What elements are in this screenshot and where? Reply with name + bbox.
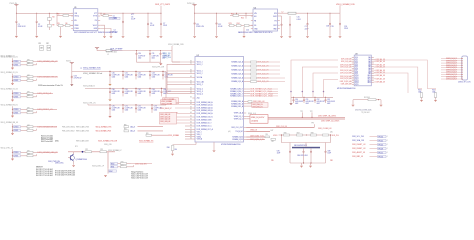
junction <box>216 13 217 14</box>
wire <box>185 133 192 135</box>
wire <box>257 73 281 75</box>
wire <box>57 15 63 17</box>
svg-text:VDDQ 1.35V VDD2 1.10V: VDDQ 1.35V VDD2 1.10V <box>131 178 149 180</box>
capacitor C18 <box>329 22 331 25</box>
svg-text:C90: C90 <box>295 99 298 101</box>
capacitor C11 <box>194 22 196 25</box>
wire <box>13 60 14 62</box>
svg-text:DM0_LN: DM0_LN <box>250 130 257 132</box>
ground <box>72 165 75 167</box>
connector wire <box>441 67 462 69</box>
junction <box>148 13 149 14</box>
series resistor <box>27 112 33 114</box>
wire <box>109 72 111 74</box>
ground <box>290 103 293 105</box>
capacitor C15 <box>281 23 283 26</box>
wire <box>138 126 164 128</box>
wire <box>241 25 244 27</box>
wire <box>122 89 124 91</box>
wire <box>48 20 50 24</box>
connector wire <box>441 69 462 71</box>
junction <box>12 155 13 156</box>
ground <box>215 36 218 38</box>
wire <box>135 72 137 74</box>
svg-text:DQ12: DQ12 <box>355 79 359 81</box>
junction <box>194 13 195 14</box>
capacitor C5 <box>122 20 124 23</box>
wire <box>112 50 118 52</box>
svg-text:DDR3_TP_CON: DDR3_TP_CON <box>458 82 471 84</box>
U3 left pin <box>352 67 354 69</box>
U4 left pin <box>251 24 253 26</box>
U2 right pin SDRAM_DM0_A <box>244 101 247 103</box>
U3 right pin <box>371 76 374 78</box>
svg-text:0.1UF 6.3V: 0.1UF 6.3V <box>152 55 160 57</box>
U3 right pin <box>371 69 374 71</box>
U3 left pin <box>352 82 354 84</box>
svg-text:VDD1_SDRAM: VDD1_SDRAM <box>168 134 179 137</box>
capacitor C70 <box>109 107 111 110</box>
wire <box>374 60 436 91</box>
svg-text:WROCLAW_DDR: WROCLAW_DDR <box>76 139 90 142</box>
U2 right pin SDRAM_DQ1_A <box>244 65 247 67</box>
svg-text:R44 22 ohm 0402: R44 22 ohm 0402 <box>41 135 53 137</box>
U3 right pin <box>371 74 374 76</box>
wire <box>293 97 295 98</box>
U3 right pin <box>371 73 374 75</box>
wire <box>162 72 164 74</box>
svg-text:VDDQ_DISC_LP: VDDQ_DISC_LP <box>92 166 105 168</box>
svg-text:VDDQ_SDRAM_OD_LN: VDDQ_SDRAM_OD_LN <box>1 88 19 91</box>
wire <box>135 110 137 113</box>
transistor Q2 <box>70 154 74 161</box>
wire <box>48 27 50 30</box>
svg-text:DDR_A1_LN: DDR_A1_LN <box>376 60 386 63</box>
wire <box>310 163 312 165</box>
wire <box>349 70 352 72</box>
svg-text:BST: BST <box>274 25 277 27</box>
wire <box>13 151 14 153</box>
U2 left pin VSSQ <box>192 136 195 138</box>
svg-text:C80: C80 <box>265 134 268 136</box>
U1 left pin <box>71 28 73 30</box>
net label <box>14 151 21 153</box>
wire <box>122 110 124 113</box>
wire <box>48 13 50 17</box>
junction <box>378 99 379 100</box>
svg-text:DDR_A7_LN: DDR_A7_LN <box>376 77 386 80</box>
wire <box>160 13 162 22</box>
resistor R5 <box>58 25 63 27</box>
wire <box>167 93 192 95</box>
wire <box>167 72 192 74</box>
wire <box>12 74 14 83</box>
wire <box>370 140 378 142</box>
wire <box>185 125 192 127</box>
wire termination link <box>291 60 338 97</box>
svg-text:0402: 0402 <box>125 110 128 112</box>
svg-text:WROCLAW_LP4X: WROCLAW_LP4X <box>76 125 90 128</box>
svg-text:0402: 0402 <box>317 103 320 105</box>
ground <box>352 105 355 107</box>
wire <box>301 163 303 165</box>
capacitor C2 <box>36 20 38 23</box>
junction <box>290 91 292 93</box>
U1 right pin <box>98 24 100 26</box>
connector pin <box>461 76 463 77</box>
wire <box>175 107 192 109</box>
wire <box>311 112 313 117</box>
svg-text:DDR_SDRAM_CK_T: DDR_SDRAM_CK_T <box>197 122 212 125</box>
resistor RT4 <box>251 77 257 79</box>
ground <box>306 36 309 38</box>
svg-text:C19: C19 <box>331 26 334 28</box>
wire <box>246 81 250 83</box>
U2 left pin VDDCA <box>192 77 195 79</box>
wire <box>257 69 281 71</box>
junction <box>149 88 150 89</box>
connector pin <box>461 69 463 70</box>
ground <box>103 36 106 38</box>
wire <box>246 116 250 118</box>
junction <box>302 117 303 118</box>
svg-text:VDDQ_PPL_1V8: VDDQ_PPL_1V8 <box>152 67 164 69</box>
junction <box>12 64 13 65</box>
U2 right pin SDRAM_DQ5_A <box>244 81 247 83</box>
svg-text:VDD2_SELF_LP: VDD2_SELF_LP <box>160 108 173 110</box>
wire <box>149 55 151 62</box>
wire <box>131 163 152 165</box>
wire <box>68 151 115 153</box>
wire <box>194 25 196 36</box>
svg-text:0402: 0402 <box>138 77 141 79</box>
net label <box>378 135 387 137</box>
ground <box>122 36 125 38</box>
U2 left pin DDR_SDRAM_CS0_N <box>192 116 195 118</box>
connector pin <box>461 74 463 75</box>
wire <box>176 101 192 103</box>
svg-text:0.01UF 6.3V: 0.01UF 6.3V <box>317 101 326 103</box>
wire <box>325 102 327 103</box>
capacitor C6 <box>147 22 149 25</box>
svg-text:DDR_SDRAM_CA4_A: DDR_SDRAM_CA4_A <box>197 112 214 115</box>
wire <box>374 69 376 71</box>
wire <box>37 92 53 94</box>
svg-text:C30: C30 <box>138 53 141 55</box>
U3 left pin <box>352 62 354 64</box>
svg-text:TP148: TP148 <box>378 148 383 150</box>
svg-text:0.1UF 6.3V: 0.1UF 6.3V <box>152 74 161 76</box>
wire cap bank bus 3 <box>88 104 166 106</box>
svg-text:DDR_SDRAM_CA1_A: DDR_SDRAM_CA1_A <box>197 103 214 106</box>
wire <box>36 79 38 81</box>
U3 right pin <box>371 62 374 64</box>
U4 right pin <box>278 12 280 14</box>
wire <box>177 116 193 118</box>
wire <box>33 79 37 81</box>
wire <box>172 61 192 63</box>
wire <box>435 97 437 99</box>
wire <box>246 101 248 103</box>
junction <box>307 13 308 14</box>
series resistor <box>27 108 33 110</box>
wire <box>185 138 192 140</box>
U3 left pin <box>352 58 354 60</box>
wire <box>171 46 173 62</box>
svg-text:TP156: TP156 <box>378 156 383 158</box>
svg-text:CKE0: CKE0 <box>14 93 18 95</box>
svg-text:CKE1: CKE1 <box>14 130 18 132</box>
wire <box>135 94 137 97</box>
svg-text:0402: 0402 <box>125 93 128 95</box>
wire <box>36 129 38 131</box>
svg-text:SDRAM_DQ1_A: SDRAM_DQ1_A <box>231 65 244 68</box>
junction <box>136 50 137 51</box>
wire <box>136 51 138 53</box>
svg-text:DQ3: DQ3 <box>355 63 358 65</box>
svg-text:CKE1: CKE1 <box>14 113 18 115</box>
ground <box>329 36 332 38</box>
wire <box>167 88 192 90</box>
svg-text:0402: 0402 <box>152 58 155 60</box>
wire <box>281 16 283 23</box>
svg-text:DDR_SDRAM_CK_C: DDR_SDRAM_CK_C <box>197 125 213 128</box>
wire <box>313 124 315 127</box>
wire <box>303 134 311 136</box>
svg-text:R72: R72 <box>85 149 88 151</box>
svg-text:0.1UF 6.3V: 0.1UF 6.3V <box>112 91 121 93</box>
svg-text:DDR_PAR_LN: DDR_PAR_LN <box>352 155 364 158</box>
junction <box>135 88 136 89</box>
capacitor C73 <box>151 107 153 110</box>
junction <box>122 88 123 89</box>
U3 left pin <box>352 76 354 78</box>
svg-text:R61 22R C77 0.1UF 0402: R61 22R C77 0.1UF 0402 <box>36 173 53 175</box>
wire <box>339 5 341 13</box>
resistor R40 ZQ <box>171 146 174 151</box>
svg-text:DDR3_DQ9_R: DDR3_DQ9_R <box>446 79 458 81</box>
U2 left pin ZQ0 <box>192 97 195 99</box>
wire <box>160 55 162 62</box>
resistor R25 <box>244 25 249 27</box>
wire <box>213 142 215 150</box>
wire <box>421 97 423 99</box>
svg-text:DDR_VTT_0V675: DDR_VTT_0V675 <box>155 4 171 6</box>
series resistor <box>27 155 33 157</box>
svg-text:MT41K256M16HA-125:E: MT41K256M16HA-125:E <box>221 143 241 146</box>
wire <box>370 152 378 154</box>
junction <box>330 13 331 14</box>
group box x16 DNI <box>250 115 268 124</box>
svg-text:SDRAM_DQ5_A: SDRAM_DQ5_A <box>231 80 244 83</box>
wire <box>21 92 28 94</box>
connector pin <box>461 72 463 73</box>
net label <box>378 139 387 141</box>
wire <box>33 92 37 94</box>
wire <box>162 77 164 80</box>
wire <box>109 110 111 113</box>
wire <box>216 13 218 22</box>
wire <box>246 118 250 120</box>
svg-text:DDR_SDA_1V8: DDR_SDA_1V8 <box>352 139 364 142</box>
capacitor C86 <box>303 150 305 153</box>
svg-text:0402: 0402 <box>163 93 166 95</box>
svg-text:R1: R1 <box>39 43 41 45</box>
U3 left pin <box>352 74 354 76</box>
U2 right pin DDR_CLK_OUT <box>244 127 247 129</box>
capacitor C51 <box>122 73 124 76</box>
resistor R23 <box>229 25 234 27</box>
junction <box>16 13 17 14</box>
wire <box>13 108 14 110</box>
wire <box>149 72 151 74</box>
ground <box>160 36 163 38</box>
wire <box>290 97 292 103</box>
ground <box>300 166 303 168</box>
wire <box>374 64 376 66</box>
svg-text:VDDQ_SDRAM_RS_LN: VDDQ_SDRAM_RS_LN <box>1 104 19 107</box>
U3 left pin <box>352 60 354 62</box>
wire <box>21 151 28 153</box>
junction <box>12 93 13 94</box>
svg-text:DDR_A5_LN: DDR_A5_LN <box>376 71 386 74</box>
svg-text:ZQ0: ZQ0 <box>197 98 200 100</box>
wire <box>33 155 37 157</box>
svg-text:VDD2_SDRAM_1V1: VDD2_SDRAM_1V1 <box>139 139 153 142</box>
wire <box>21 108 28 110</box>
connector wire <box>441 60 462 62</box>
wire <box>109 79 111 83</box>
wire <box>149 94 151 97</box>
svg-text:CKE0: CKE0 <box>14 77 18 79</box>
wire <box>177 113 193 115</box>
capacitor C72 <box>135 107 137 110</box>
net label <box>378 143 387 145</box>
svg-text:0.1UF 6.3V: 0.1UF 6.3V <box>138 91 147 93</box>
connector wire <box>441 58 462 60</box>
wire <box>289 16 291 23</box>
svg-text:DDR_DISC: DDR_DISC <box>55 162 64 164</box>
ground <box>309 166 312 168</box>
wire DQS_T <box>246 136 265 138</box>
svg-text:C18: C18 <box>326 25 329 27</box>
wire <box>149 77 151 80</box>
wire <box>289 153 291 163</box>
junction <box>293 97 294 98</box>
svg-text:C91: C91 <box>306 99 309 101</box>
wire VTTREF cap return <box>137 61 161 63</box>
svg-text:SDRAM_DQS1_C: SDRAM_DQS1_C <box>230 95 244 98</box>
wire <box>194 13 196 22</box>
wire <box>13 129 14 131</box>
wire <box>172 61 180 63</box>
off-page connector VDD2 pair <box>161 100 177 105</box>
svg-text:R90: R90 <box>124 124 127 126</box>
U2 left pin DDR_SDRAM_CA1_A <box>192 104 195 106</box>
svg-text:CKE1: CKE1 <box>14 97 18 99</box>
resistor R89 <box>323 134 329 136</box>
svg-text:DQ1: DQ1 <box>355 59 358 61</box>
wire <box>246 90 250 92</box>
svg-text:R73: R73 <box>100 149 103 151</box>
svg-text:C81: C81 <box>271 141 274 143</box>
svg-text:DDR_VREF_CA_0V675: DDR_VREF_CA_0V675 <box>318 115 336 118</box>
svg-text:0402: 0402 <box>125 77 128 79</box>
wire <box>370 144 378 146</box>
svg-text:0.1UF: 0.1UF <box>150 25 154 27</box>
capacitor C7 <box>160 22 162 25</box>
wire <box>374 58 376 60</box>
capacitor C50 <box>109 73 111 76</box>
svg-text:C4: C4 <box>114 29 116 31</box>
connector pin <box>461 65 463 66</box>
U1 right pin <box>98 15 100 17</box>
junction <box>236 13 237 14</box>
wire <box>33 60 37 62</box>
wire <box>243 27 245 36</box>
wire filter frame <box>282 135 331 143</box>
wire <box>21 129 28 131</box>
wire <box>303 153 305 163</box>
junction <box>161 13 162 14</box>
off-page connector DDR_CA bus <box>160 112 177 124</box>
wire <box>246 73 250 75</box>
svg-text:R71: R71 <box>75 146 78 148</box>
wire <box>289 143 291 151</box>
series resistor <box>27 129 33 131</box>
resistor RC <box>146 134 152 136</box>
svg-text:SDRAM_DQ0_A: SDRAM_DQ0_A <box>231 61 244 64</box>
capacitor C12 <box>216 22 218 25</box>
svg-text:DDR_A6_LN: DDR_A6_LN <box>376 74 386 77</box>
ground <box>171 154 174 156</box>
capacitor C52 <box>135 73 137 76</box>
svg-text:DDR_SDRAM_CA3_A: DDR_SDRAM_CA3_A <box>197 109 214 112</box>
U2 right pin VREF_DQ_1 <box>244 116 247 118</box>
resistor R2 <box>47 45 50 50</box>
wire <box>314 102 316 103</box>
capacitor C92 <box>314 99 316 102</box>
svg-text:DQ10: DQ10 <box>355 75 359 77</box>
svg-text:VDDQ_CTRL_LN: VDDQ_CTRL_LN <box>1 148 14 150</box>
svg-text:R44 22 ohm 0402: R44 22 ohm 0402 <box>41 137 53 139</box>
wire <box>109 94 111 97</box>
U2 left pin DDR_SDRAM_CA2_A <box>192 107 195 109</box>
capacitor C91 <box>303 99 305 102</box>
wire <box>325 97 327 98</box>
wire <box>122 24 124 36</box>
svg-text:SDRAM_DQ3_A: SDRAM_DQ3_A <box>231 73 244 76</box>
net VTT_SNS <box>109 17 120 19</box>
U2 right pin SDRAM_DQ4_A <box>244 77 247 79</box>
wire <box>118 166 121 168</box>
wire <box>239 15 253 17</box>
svg-text:VDDQ_SDRAM_LP4X: VDDQ_SDRAM_LP4X <box>96 125 113 128</box>
svg-text:10UF: 10UF <box>327 153 331 155</box>
svg-text:VTT: VTT <box>94 13 97 15</box>
wire <box>36 13 38 20</box>
ground <box>110 36 113 38</box>
ground <box>434 100 437 102</box>
wire <box>33 129 37 131</box>
IC U2 SDRAM <box>195 57 244 143</box>
net label <box>378 147 387 149</box>
svg-text:TP140: TP140 <box>378 140 383 142</box>
wire VDDQ output <box>296 12 340 14</box>
junction <box>49 13 50 14</box>
ground <box>70 84 73 86</box>
wire <box>100 25 104 36</box>
